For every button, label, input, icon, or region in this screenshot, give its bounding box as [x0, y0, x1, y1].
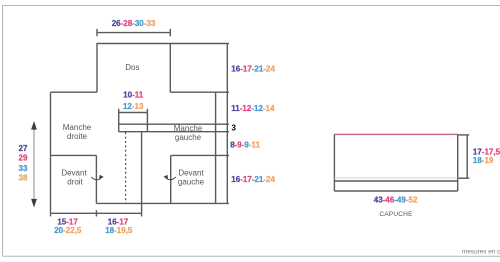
svg-text:26-28-30-33: 26-28-30-33 [112, 19, 156, 28]
svg-text:11-12-12-14: 11-12-12-14 [231, 104, 275, 113]
svg-text:18-19: 18-19 [473, 156, 494, 165]
svg-text:20-22,5: 20-22,5 [54, 226, 82, 235]
svg-text:18-19,5: 18-19,5 [105, 226, 133, 235]
svg-text:8-9-9-11: 8-9-9-11 [230, 141, 260, 150]
svg-text:Manche: Manche [174, 124, 203, 133]
svg-text:27: 27 [19, 144, 28, 153]
svg-text:droite: droite [67, 132, 88, 141]
svg-text:droit: droit [67, 177, 83, 186]
svg-text:gauche: gauche [175, 133, 202, 142]
svg-text:10-11: 10-11 [123, 90, 144, 99]
svg-text:Devant: Devant [178, 168, 204, 177]
svg-text:Devant: Devant [61, 168, 87, 177]
svg-text:29: 29 [19, 154, 28, 163]
svg-text:16-17-21-24: 16-17-21-24 [231, 175, 275, 184]
svg-text:CAPUCHE: CAPUCHE [379, 211, 413, 218]
svg-text:mesures en cm: mesures en cm [462, 248, 500, 255]
svg-text:33: 33 [19, 164, 28, 173]
svg-text:16-17-21-24: 16-17-21-24 [231, 64, 275, 73]
svg-text:gauche: gauche [178, 177, 205, 186]
svg-text:43-46-49-52: 43-46-49-52 [374, 195, 418, 204]
svg-text:12-13: 12-13 [123, 102, 144, 111]
svg-text:38: 38 [19, 174, 28, 183]
svg-text:Manche: Manche [63, 123, 92, 132]
svg-text:3: 3 [232, 124, 237, 133]
svg-text:Dos: Dos [125, 63, 139, 72]
